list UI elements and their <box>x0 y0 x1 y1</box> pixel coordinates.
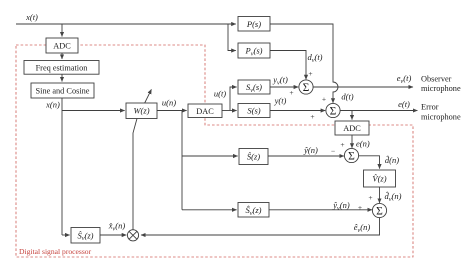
svg-text:Σ: Σ <box>330 106 337 118</box>
wire sum3 to V-hat(z) <box>359 156 380 169</box>
wire ADC1 to Freq estimation <box>61 53 63 59</box>
box V-hat(z) <box>364 170 396 187</box>
summer sum1 <box>299 80 313 94</box>
wire x(n) vertical down <box>61 98 63 235</box>
svg-text:−: − <box>331 147 335 156</box>
wire W(z) to DAC <box>157 110 187 112</box>
box DAC <box>188 104 222 118</box>
svg-text:dv(t): dv(t) <box>307 52 322 64</box>
wire branch to Pv(s) <box>228 24 236 51</box>
svg-text:y(t): y(t) <box>274 96 287 106</box>
wire e(t) branch down to ADC2 <box>351 111 353 120</box>
svg-text:d̂(n): d̂(n) <box>385 154 399 165</box>
svg-text:Error: Error <box>421 103 439 112</box>
wire V-hat(z) to sum4 <box>379 187 381 203</box>
svg-text:microphone: microphone <box>421 84 461 93</box>
svg-text:x̂v(n): x̂v(n) <box>108 221 126 233</box>
wire adaptive arrow through W(z) <box>137 89 151 118</box>
box Sv-hat(z) lower <box>238 203 269 218</box>
wire u(n) into S-hat(z) <box>182 155 238 157</box>
svg-text:ADC: ADC <box>53 42 71 51</box>
box P(s) <box>238 17 270 32</box>
wire S(s) to sum2 <box>270 110 325 112</box>
box Sv-hat(z) left <box>71 228 100 244</box>
svg-text:ŷ(n): ŷ(n) <box>303 145 318 155</box>
svg-text:Σ: Σ <box>303 82 310 94</box>
box Pv(s) <box>238 43 270 58</box>
wire P(s) to sum2 <box>270 24 338 103</box>
svg-text:+: + <box>322 95 326 104</box>
svg-text:DAC: DAC <box>196 107 214 116</box>
box ADC2 <box>335 121 369 135</box>
box Freq estimation <box>24 61 99 75</box>
svg-text:ev(t): ev(t) <box>397 73 412 85</box>
svg-text:d(t): d(t) <box>341 92 353 102</box>
wire u(n) branch vertical <box>181 111 183 210</box>
summer sum3 <box>344 148 358 162</box>
svg-text:u(t): u(t) <box>214 89 226 99</box>
wire Pv(s) to sum1 with dv(t) <box>270 51 306 80</box>
wire ADC2 to sum3 with e(n) <box>351 135 353 148</box>
svg-text:S(s): S(s) <box>247 106 260 116</box>
svg-text:Σ: Σ <box>376 206 383 218</box>
svg-text:+: + <box>289 88 293 97</box>
svg-text:Freq estimation: Freq estimation <box>36 64 89 73</box>
wire sum2 to error mic <box>340 110 417 112</box>
wire into Sv-hat(z) <box>62 234 70 236</box>
svg-text:+: + <box>368 193 372 202</box>
svg-text:+: + <box>308 69 312 78</box>
wire x(n) into W(z) <box>62 110 125 112</box>
svg-text:êv(n): êv(n) <box>354 222 371 234</box>
wire sum4 down and back to multiplier <box>141 218 380 235</box>
box Sine and Cosine <box>31 83 94 98</box>
box S(s) <box>238 104 270 118</box>
svg-text:Digital signal processor: Digital signal processor <box>19 247 92 256</box>
svg-text:x(n): x(n) <box>45 100 60 110</box>
wire u(t) branch to Sv(s) <box>230 87 237 111</box>
svg-text:Ŝ(z): Ŝ(z) <box>247 152 260 162</box>
summer sum2 <box>326 103 340 117</box>
svg-text:+: + <box>340 140 344 149</box>
svg-text:W(z): W(z) <box>133 106 149 116</box>
svg-text:e(n): e(n) <box>356 139 370 149</box>
svg-text:ADC: ADC <box>343 124 361 133</box>
svg-text:Σ: Σ <box>348 151 355 163</box>
svg-text:u(n): u(n) <box>162 98 176 108</box>
box S-hat(z) <box>239 149 268 165</box>
svg-text:e(t): e(t) <box>398 99 410 109</box>
svg-text:Sine and Cosine: Sine and Cosine <box>36 87 90 96</box>
wire branch down to ADC1 <box>61 24 63 37</box>
svg-text:yv(t): yv(t) <box>272 75 288 87</box>
box ADC1 <box>46 38 78 53</box>
summer sum4 <box>372 203 386 217</box>
multiplier <box>127 230 138 241</box>
svg-text:x(t): x(t) <box>25 12 38 22</box>
DSP dashed boundary <box>16 45 413 257</box>
wire sum1 to observer mic with hop <box>313 86 413 88</box>
svg-text:P(s): P(s) <box>246 19 261 29</box>
box Sv(s) <box>238 80 270 94</box>
wire u(n) into Sv-hat(z) lower <box>182 209 237 211</box>
wire multiplier up to W(z) <box>133 119 137 230</box>
svg-text:+: + <box>310 112 314 121</box>
svg-text:Observer: Observer <box>421 74 452 83</box>
svg-text:V̂(z): V̂(z) <box>372 173 386 183</box>
wire Freq estimation to Sine and Cosine <box>61 74 63 81</box>
wire DAC to S(s) <box>222 110 237 112</box>
svg-text:+: + <box>358 203 362 212</box>
wire S-hat(z) to sum3 <box>268 155 344 157</box>
wire Sv-hat(z) lower to sum4 <box>269 209 372 211</box>
svg-text:d̂v(n): d̂v(n) <box>385 190 402 203</box>
svg-text:microphone: microphone <box>421 112 461 121</box>
wire x(t) top line into P(s) <box>16 23 236 25</box>
box W(z) <box>126 103 157 119</box>
wire Sv-hat(z) to multiplier <box>100 234 126 236</box>
wire Sv(s) to sum1 <box>270 86 298 88</box>
